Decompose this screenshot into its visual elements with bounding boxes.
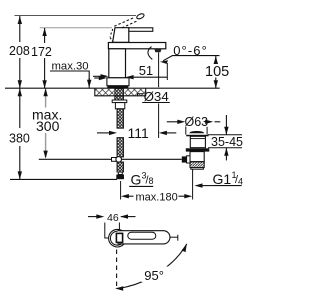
Ø34 label	[138, 89, 170, 104]
svg-text:172: 172	[31, 45, 52, 59]
waste neck	[190, 136, 205, 147]
supply hose lower	[117, 162, 124, 172]
svg-text:8: 8	[149, 176, 154, 186]
dimension 208	[9, 16, 30, 88]
deck band bottom	[95, 88, 146, 96]
svg-text:46: 46	[107, 212, 119, 224]
hose neck	[118, 172, 122, 175]
faucet lever bar	[127, 28, 153, 32]
svg-text:G1: G1	[213, 171, 232, 187]
95 degree arc	[117, 244, 187, 289]
dimension 380	[9, 88, 30, 179]
svg-text:35-45: 35-45	[211, 135, 243, 149]
top view extension tick	[170, 236, 178, 238]
dimension 51	[93, 63, 167, 80]
waste bottom lip	[191, 168, 204, 170]
faucet body top bar / spout	[108, 43, 165, 49]
deck line	[5, 87, 220, 89]
mounting nut	[115, 103, 124, 109]
deck band hatched right	[124, 89, 145, 96]
0-6 leader and arrow	[163, 56, 172, 61]
bottom extension line (380 end)	[10, 178, 117, 180]
svg-text:51: 51	[139, 63, 153, 78]
faucet raised lever (dashed)	[110, 13, 145, 42]
deck band hatched left	[95, 89, 114, 96]
top view lever arm	[117, 231, 170, 244]
0-6 degree arc at outlet	[148, 47, 152, 60]
svg-text:300: 300	[36, 118, 60, 134]
faucet base gasket	[107, 86, 128, 89]
pop-up rod	[39, 158, 182, 160]
outlet extension line down	[158, 52, 160, 87]
waste body	[190, 152, 204, 162]
svg-text:4: 4	[238, 177, 243, 187]
svg-text:105: 105	[205, 64, 229, 80]
dimension 105	[205, 56, 229, 88]
dimension 46	[88, 212, 136, 238]
faucet plinth	[107, 78, 129, 86]
waste thread	[190, 162, 204, 168]
swivel axis dashed	[116, 250, 118, 289]
extension line lever (172 level)	[40, 27, 112, 29]
svg-text:380: 380	[9, 132, 30, 146]
G3/8 label	[129, 171, 153, 188]
dimension max.300	[32, 88, 62, 158]
pop-up waste plug dome	[189, 131, 204, 133]
svg-text:Ø63: Ø63	[185, 115, 209, 129]
waste flange	[186, 135, 208, 137]
extension line top (208 level)	[15, 15, 137, 17]
top view lever slot	[128, 232, 156, 239]
dimension 111	[97, 125, 176, 141]
G3/8 fitting nut	[116, 175, 124, 180]
waste seal band	[186, 148, 210, 151]
svg-text:G: G	[131, 172, 142, 188]
dimension Ø63	[167, 115, 221, 135]
faucet lever pivot block	[113, 28, 129, 43]
supply hose upper	[117, 109, 124, 128]
top view cartridge rect	[116, 233, 122, 242]
svg-text:208: 208	[9, 44, 30, 58]
faucet body column	[109, 49, 126, 78]
top view body circle	[109, 229, 127, 247]
svg-text:Ø34: Ø34	[144, 89, 169, 104]
rod clamp	[112, 158, 117, 162]
95 label	[142, 267, 169, 283]
svg-text:95°: 95°	[144, 268, 164, 283]
G1 1/4 label	[195, 170, 244, 188]
dimension 172	[31, 28, 52, 88]
waste left connector	[182, 156, 187, 162]
supply hose mid	[117, 138, 124, 157]
dimension max.30	[50, 61, 107, 88]
svg-text:111: 111	[128, 125, 149, 141]
svg-text:max.180: max.180	[136, 192, 178, 204]
rod ball joint	[116, 157, 122, 163]
aerator at spout tip	[154, 49, 161, 52]
shank below deck	[115, 88, 124, 100]
dimension 35-45	[208, 115, 243, 160]
washer	[112, 100, 127, 103]
dimension max.180	[121, 169, 193, 203]
